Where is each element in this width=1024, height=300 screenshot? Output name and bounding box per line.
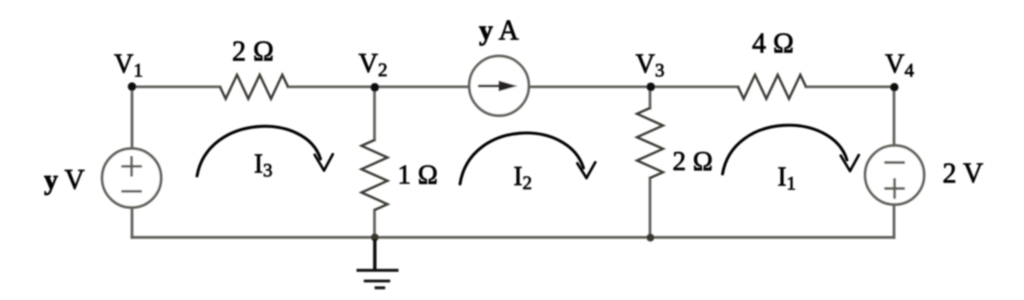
svg-text:I1: I1 — [778, 162, 797, 195]
svg-text:y V: y V — [44, 165, 85, 196]
svg-text:2 Ω: 2 Ω — [232, 37, 274, 68]
svg-text:I3: I3 — [254, 149, 273, 182]
svg-text:2 Ω: 2 Ω — [673, 146, 713, 176]
svg-text:y A: y A — [479, 16, 519, 47]
svg-text:V1: V1 — [114, 49, 143, 82]
svg-text:1 Ω: 1 Ω — [398, 160, 438, 190]
svg-text:V2: V2 — [359, 48, 388, 81]
svg-text:V4: V4 — [885, 49, 915, 82]
svg-text:V3: V3 — [636, 49, 665, 82]
svg-text:2 V: 2 V — [943, 159, 984, 190]
svg-text:4 Ω: 4 Ω — [752, 29, 794, 60]
svg-text:I2: I2 — [514, 161, 533, 194]
